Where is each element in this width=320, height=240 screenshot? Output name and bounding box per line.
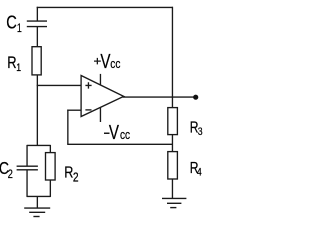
svg-text:V: V: [100, 50, 110, 73]
svg-text:C: C: [6, 12, 17, 33]
svg-text:1: 1: [17, 23, 22, 35]
svg-text:2: 2: [8, 168, 13, 181]
svg-text:2: 2: [73, 170, 79, 184]
svg-text:R: R: [64, 164, 73, 182]
svg-text:1: 1: [16, 62, 21, 74]
svg-text:R: R: [7, 55, 16, 73]
svg-text:4: 4: [197, 167, 202, 179]
svg-text:V: V: [109, 121, 119, 144]
svg-text:3: 3: [198, 126, 203, 138]
svg-text:cc: cc: [120, 128, 130, 142]
svg-text:cc: cc: [110, 57, 120, 71]
